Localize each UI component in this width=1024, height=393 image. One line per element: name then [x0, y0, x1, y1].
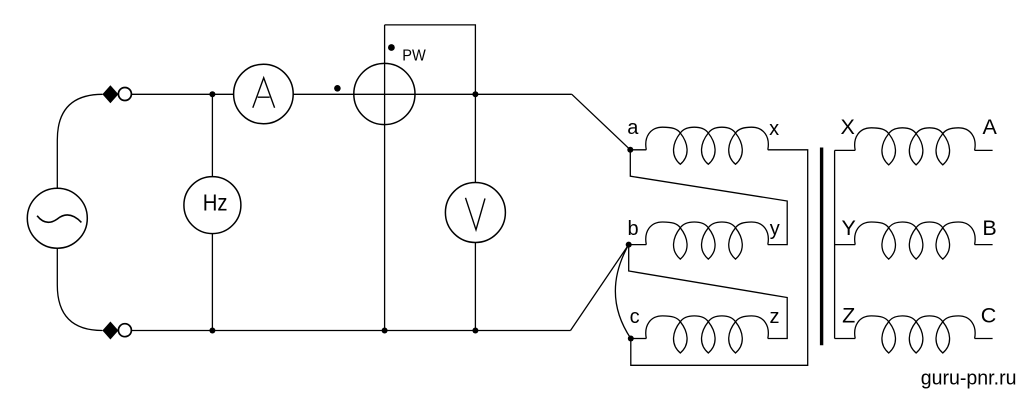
svg-text:Hz: Hz [203, 190, 228, 216]
svg-text:c: c [630, 306, 640, 328]
svg-text:A: A [983, 115, 998, 139]
svg-text:Z: Z [842, 303, 855, 327]
svg-text:b: b [628, 218, 639, 240]
svg-text:z: z [770, 306, 780, 328]
svg-text:guru-pnr.ru: guru-pnr.ru [921, 368, 1017, 390]
svg-text:Y: Y [842, 216, 856, 240]
svg-text:B: B [982, 216, 996, 240]
svg-text:x: x [769, 118, 779, 140]
svg-text:a: a [627, 117, 639, 139]
svg-text:X: X [841, 115, 855, 139]
svg-text:y: y [770, 218, 780, 240]
svg-text:C: C [981, 304, 997, 328]
svg-text:PW: PW [402, 47, 426, 64]
